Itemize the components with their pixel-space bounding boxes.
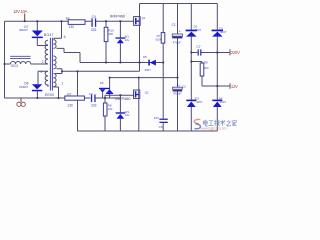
tint behind IRFP460 top label bbox=[109, 13, 131, 19]
svg-text:333: 333 bbox=[91, 28, 97, 32]
diode D8 bbox=[32, 84, 42, 89]
diode D2 bbox=[186, 30, 197, 32]
svg-text:3: 3 bbox=[40, 70, 42, 74]
wire C7 output line bbox=[191, 52, 229, 54]
diac D9 bbox=[99, 88, 110, 89]
svg-text:IN4007: IN4007 bbox=[19, 85, 28, 89]
watermark text (hand-drawn CJK strokes) bbox=[203, 120, 236, 126]
wire top HV bus bbox=[140, 3, 218, 5]
svg-text:4007: 4007 bbox=[220, 100, 227, 104]
svg-text:2: 2 bbox=[42, 60, 44, 64]
wire R10 branch bbox=[105, 21, 107, 62]
wire Q2 source bbox=[138, 99, 140, 132]
svg-text:333: 333 bbox=[91, 103, 97, 107]
svg-text:+: + bbox=[179, 30, 181, 34]
wire W2 branch bbox=[119, 95, 121, 131]
svg-text:D5: D5 bbox=[143, 55, 147, 59]
zener W2 bbox=[116, 112, 125, 113]
diode D3 bbox=[186, 100, 196, 102]
svg-text:EE50: EE50 bbox=[45, 93, 54, 97]
svg-text:www.dgjs123.com: www.dgjs123.com bbox=[200, 126, 226, 130]
resistor R9 (R8 100) bbox=[103, 103, 107, 116]
svg-text:BG47: BG47 bbox=[44, 33, 54, 37]
工 bbox=[209, 121, 214, 126]
wire D7 branch bbox=[37, 21, 48, 45]
resistor R7b (130) bbox=[65, 96, 85, 100]
resistor R7 bbox=[161, 33, 165, 44]
inductor L1 coil bbox=[10, 61, 30, 64]
diode D5 bbox=[148, 60, 150, 66]
svg-text:100: 100 bbox=[108, 107, 113, 111]
wire feedback common line bbox=[55, 69, 140, 74]
resistor R10 bbox=[104, 27, 108, 41]
resistor R6 bbox=[68, 20, 85, 25]
wire inductor link bbox=[5, 63, 49, 65]
wire Q1 source bbox=[139, 25, 141, 71]
svg-text:130: 130 bbox=[67, 103, 73, 107]
svg-text:470uF: 470uF bbox=[173, 91, 181, 95]
技 bbox=[214, 120, 219, 126]
svg-text:103: 103 bbox=[154, 116, 159, 120]
wire bottom bus bbox=[78, 130, 218, 132]
wire winding tap to source bus bbox=[57, 48, 81, 62]
svg-text:R6: R6 bbox=[66, 17, 70, 21]
diode D4 bbox=[212, 100, 222, 102]
wire left rail bbox=[4, 21, 6, 98]
transformer T1 primary lower winding bbox=[45, 71, 48, 87]
svg-text:470uF: 470uF bbox=[173, 40, 181, 44]
diode D1 bbox=[212, 30, 223, 32]
watermark logo bbox=[194, 119, 200, 128]
svg-text:R7: R7 bbox=[157, 34, 161, 38]
wire Q1 drain bbox=[139, 4, 141, 17]
svg-text:100: 100 bbox=[108, 32, 113, 36]
wire C1 C2 column bbox=[177, 4, 179, 132]
capacitor C3 bbox=[91, 94, 92, 102]
transformer T1 feedback winding C bbox=[53, 74, 56, 88]
wire D1 D4 column bbox=[216, 4, 218, 132]
svg-text:IN4007: IN4007 bbox=[19, 28, 28, 32]
svg-text:4007: 4007 bbox=[220, 30, 227, 34]
svg-text:C4: C4 bbox=[92, 15, 96, 19]
transformer T1 core bbox=[50, 38, 52, 91]
wire transformer pin6 branch bbox=[54, 21, 62, 40]
svg-text:IRFP460: IRFP460 bbox=[110, 13, 126, 18]
wire feedback to bottom bus bbox=[77, 71, 79, 131]
svg-text:C3: C3 bbox=[89, 92, 93, 96]
wire transformer pin1 staircase bbox=[54, 87, 59, 98]
svg-text:C1: C1 bbox=[172, 23, 176, 27]
svg-text:Q2: Q2 bbox=[145, 91, 149, 95]
transformer T1 primary upper winding bbox=[45, 40, 48, 64]
wire R9 branch bbox=[104, 95, 106, 131]
术 bbox=[220, 120, 225, 126]
transformer T1 feedback winding B bbox=[53, 56, 56, 69]
inductor L1 core bbox=[10, 56, 30, 58]
svg-text:R7: R7 bbox=[67, 92, 71, 96]
diode D7 bbox=[32, 31, 43, 37]
svg-text:510K: 510K bbox=[155, 38, 161, 42]
svg-text:4007: 4007 bbox=[196, 100, 203, 104]
svg-text:IRFP460: IRFP460 bbox=[115, 96, 131, 101]
wire R8 to 12V terminal bbox=[202, 76, 230, 86]
wire W1 branch bbox=[119, 21, 121, 62]
svg-text:12v: 12v bbox=[125, 38, 130, 42]
terminal 220V bbox=[229, 49, 231, 55]
svg-text:130: 130 bbox=[69, 25, 75, 29]
svg-text:D9: D9 bbox=[100, 81, 104, 85]
svg-text:220V: 220V bbox=[231, 50, 240, 55]
svg-text:R8: R8 bbox=[204, 60, 208, 64]
wire R7 column bbox=[162, 4, 164, 119]
ground symbol bbox=[20, 98, 22, 102]
svg-text:12V 10A: 12V 10A bbox=[13, 9, 28, 14]
svg-text:2E03: 2E03 bbox=[11, 64, 19, 68]
svg-text:C7: C7 bbox=[196, 45, 200, 49]
wire D8 branch bbox=[37, 71, 47, 98]
svg-text:103: 103 bbox=[204, 66, 209, 70]
svg-text:4007: 4007 bbox=[144, 68, 151, 72]
svg-text:1: 1 bbox=[61, 82, 63, 86]
svg-text:C5: C5 bbox=[159, 125, 163, 129]
svg-text:12V: 12V bbox=[231, 84, 238, 89]
terminal 12V bbox=[229, 83, 231, 88]
svg-text:C2: C2 bbox=[182, 85, 186, 89]
tint behind IRFP460 bottom label bbox=[114, 95, 134, 101]
wire C5 to bottom bus bbox=[162, 123, 164, 131]
wire bottom gate bus bbox=[5, 97, 122, 99]
svg-text:6: 6 bbox=[64, 35, 66, 39]
wire D2 D3 column bbox=[190, 4, 192, 132]
wire DIAC branch bbox=[103, 78, 110, 98]
capacitor C4 bbox=[91, 18, 92, 26]
svg-text:4007: 4007 bbox=[195, 28, 202, 32]
之 bbox=[226, 120, 231, 126]
wire Q2 drain line bbox=[110, 78, 178, 90]
wire top gate bus bbox=[5, 20, 134, 22]
电 bbox=[203, 120, 208, 126]
svg-text:12v: 12v bbox=[125, 113, 130, 117]
wire Q2 gate line bbox=[105, 94, 134, 96]
家 bbox=[232, 120, 237, 126]
transformer T1 feedback winding A bbox=[53, 40, 56, 49]
junction dots bbox=[4, 20, 219, 99]
zener W1 bbox=[116, 37, 126, 38]
wire source bus bbox=[80, 62, 163, 64]
svg-text:Q1: Q1 bbox=[142, 16, 146, 20]
wire R8 stub bbox=[191, 62, 202, 64]
